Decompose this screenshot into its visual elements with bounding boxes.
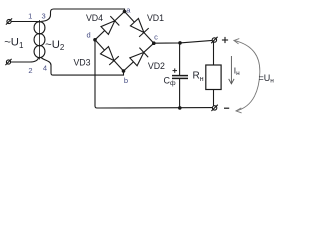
- voltage arc arrow Uн (+ to -): [234, 39, 260, 113]
- capacitor bottom lead: [179, 79, 181, 108]
- svg-text:VD2: VD2: [148, 61, 165, 71]
- diode VD1 (anode a, cathode c): [130, 19, 148, 37]
- diode VD2 (anode b, cathode c): [130, 48, 148, 66]
- svg-text:3: 3: [42, 12, 46, 21]
- diode VD3 (anode d, cathode b): [101, 47, 119, 65]
- capacitor polarity +: [173, 68, 178, 72]
- wire terminal2 to primary bottom: [11, 58, 39, 62]
- svg-text:VD1: VD1: [147, 13, 164, 23]
- transformer T1 primary winding: [34, 22, 41, 58]
- svg-text:VD4: VD4: [86, 13, 103, 23]
- node a dot: [123, 10, 127, 14]
- capacitor C plates: [172, 76, 188, 79]
- output terminal -: [211, 105, 217, 111]
- bridge side d-b: [95, 40, 124, 71]
- node b dot: [122, 69, 126, 73]
- svg-text:c: c: [154, 33, 158, 42]
- current arrow I load: [229, 56, 234, 84]
- transformer T1 secondary winding: [38, 22, 45, 58]
- bridge side a-c: [125, 12, 154, 44]
- bridge side d-a: [95, 12, 125, 40]
- wire node d down to bottom rail: [95, 40, 212, 108]
- transformer core line: [39, 20, 41, 60]
- wire secondary bottom to node b: [41, 58, 123, 75]
- svg-text:2: 2: [28, 66, 32, 75]
- plus sign output: [222, 37, 228, 43]
- svg-text:Cф: Cф: [164, 76, 177, 87]
- node d dot: [93, 38, 97, 42]
- svg-text:4: 4: [43, 64, 47, 73]
- resistor bottom lead: [213, 90, 215, 106]
- svg-text:~U2: ~U2: [45, 39, 65, 52]
- svg-text:1: 1: [28, 12, 32, 21]
- svg-text:=Uн: =Uн: [259, 73, 275, 85]
- wire terminal1 to primary top: [11, 21, 39, 23]
- node c dot: [152, 41, 156, 45]
- capacitor top lead: [179, 43, 181, 75]
- bridge side b-c: [124, 43, 154, 71]
- svg-text:~U1: ~U1: [4, 37, 24, 50]
- svg-text:Iн: Iн: [234, 66, 240, 78]
- svg-text:a: a: [126, 5, 131, 14]
- capacitor junction dot bottom: [178, 106, 182, 110]
- wire secondary top to node a: [41, 9, 124, 21]
- svg-text:d: d: [87, 31, 91, 40]
- diode VD4 (anode d, cathode a): [101, 16, 119, 34]
- input terminal top-left: [6, 18, 12, 24]
- svg-text:b: b: [124, 76, 128, 85]
- resistor R body: [206, 65, 221, 90]
- svg-text:VD3: VD3: [73, 58, 90, 68]
- minus sign output: [224, 107, 229, 109]
- input terminal bottom-left: [5, 59, 11, 65]
- capacitor junction dot top: [178, 41, 182, 45]
- resistor top lead: [213, 43, 215, 66]
- top rail c to + terminal: [154, 40, 212, 43]
- svg-text:Rн: Rн: [193, 71, 204, 84]
- output terminal +: [211, 37, 217, 43]
